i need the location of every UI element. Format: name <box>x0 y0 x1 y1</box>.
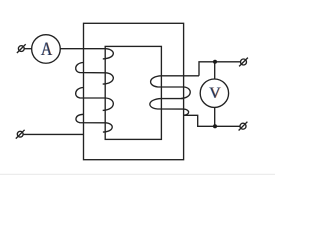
voltmeter V1 circle <box>200 79 228 107</box>
terminal X1 top-left <box>17 44 26 53</box>
svg-text:A: A <box>41 39 53 60</box>
wire voltmeter stem top <box>214 62 216 79</box>
terminal X2 bottom-left <box>16 130 25 139</box>
wire secondary top tap up and to TR terminal <box>199 62 241 76</box>
junction node bottom <box>213 124 217 128</box>
secondary winding S1 (right limb) <box>150 76 199 116</box>
voltmeter label V <box>209 85 222 102</box>
junction node top <box>213 60 217 64</box>
wire voltmeter stem bottom <box>214 107 216 126</box>
wire ammeter to primary winding <box>60 48 105 50</box>
ammeter label A <box>41 39 54 60</box>
primary winding P1 (left limb) <box>76 49 114 132</box>
transformer core outer rectangle <box>84 23 184 159</box>
separator line (faint) <box>0 173 275 175</box>
wire secondary bottom tap down and to BR terminal <box>184 115 241 126</box>
wire TL terminal to ammeter <box>24 48 32 50</box>
ammeter A1 circle <box>32 35 61 64</box>
wire BL terminal to core left <box>23 133 83 135</box>
terminal X4 bottom-right <box>239 122 248 131</box>
transformer core inner rectangle (window) <box>105 46 161 139</box>
svg-text:V: V <box>209 85 221 102</box>
terminal X3 top-right <box>239 58 248 67</box>
